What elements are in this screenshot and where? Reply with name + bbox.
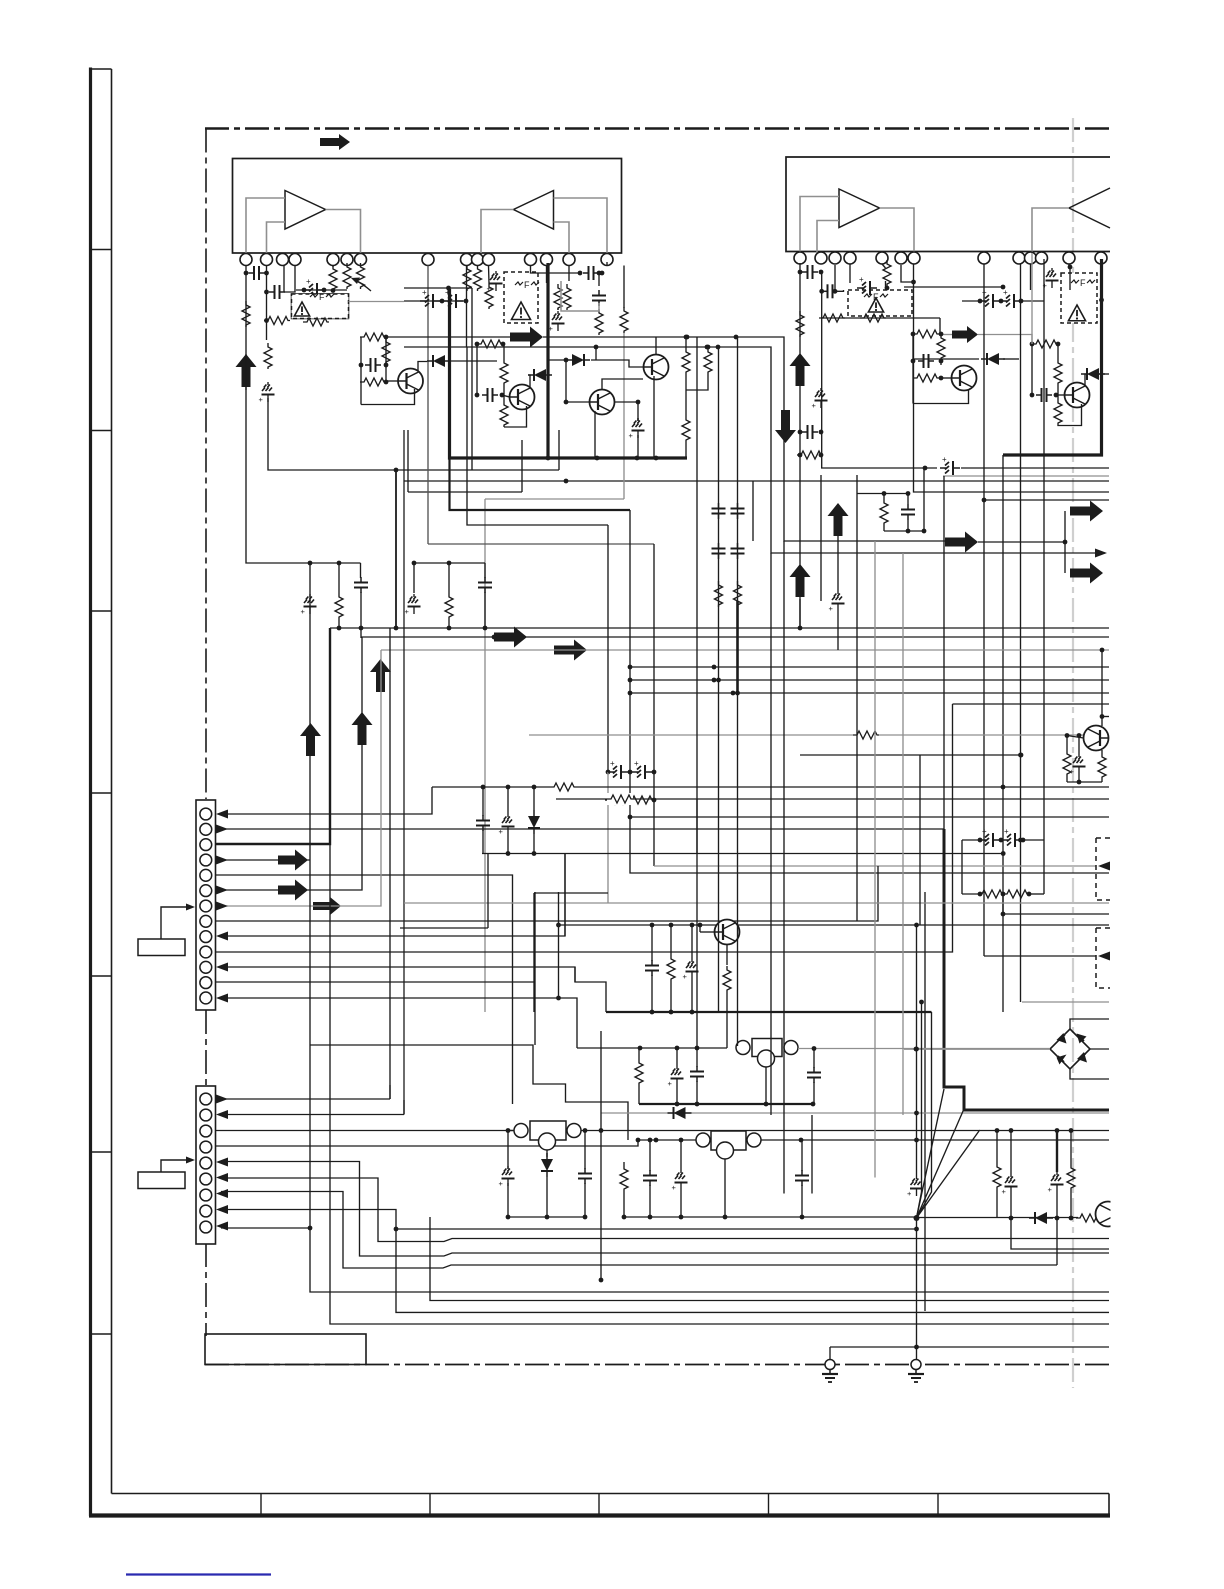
wire vert x962: [961, 840, 963, 894]
resistor R51: [682, 416, 690, 442]
wire row787 bottoms2: [507, 834, 509, 854]
wire h301: [962, 300, 980, 302]
resistor R3: [264, 317, 290, 325]
wire pair772 leads: [608, 771, 610, 773]
Q4 collector: [1100, 648, 1105, 726]
wire vr2 wiper: [724, 1159, 726, 1217]
resistor R49: [682, 348, 690, 374]
signal flow arrow A15: [370, 659, 391, 692]
svg-text:+: +: [610, 759, 615, 768]
Q7 emitter loop: [504, 406, 527, 427]
polarized capacitor C4: [302, 277, 327, 297]
wire cap to dashed box: [284, 266, 295, 293]
potentiometer VR1: [736, 1039, 798, 1068]
op-amp U1A triangle: [285, 191, 326, 230]
Q3 base stub: [1056, 394, 1065, 396]
wire rb d3: [1056, 1131, 1058, 1173]
capacitor C5: [359, 358, 389, 372]
wire row787 drops2: [507, 787, 509, 814]
signal flow arrow A16: [278, 850, 308, 871]
signal flow arrow A7: [790, 564, 811, 597]
Q7 base: [502, 395, 510, 397]
resistor R35 inline: [550, 781, 576, 793]
CN2 label leader: [161, 1157, 195, 1173]
wire vert x838b: [837, 611, 839, 650]
wire pair301 row: [404, 299, 468, 304]
resistor R46: [475, 340, 506, 348]
wire pin835 drop: [834, 265, 836, 291]
wire vert x800 low: [799, 599, 801, 628]
CN2 pin2 arrow: [216, 1110, 228, 1119]
wire IC2 pin1 feed: [799, 263, 801, 628]
CN1 pin5 wire: [216, 875, 513, 1104]
signal flow arrow A18: [313, 897, 341, 915]
resistor R27: [445, 593, 453, 619]
thick rail IC1 pin12: [546, 263, 549, 458]
wire vr2 d3: [679, 1138, 684, 1170]
signal flow arrow A2: [236, 354, 257, 387]
wire row1104: [639, 1102, 815, 1107]
svg-text:+: +: [629, 431, 634, 440]
svg-text:+: +: [1004, 827, 1009, 836]
capacitor C23: [478, 577, 492, 593]
wire ic2 cell2: [849, 264, 851, 283]
op-amp U2A triangle: [839, 189, 880, 228]
svg-text:+: +: [982, 827, 987, 836]
VR3 right lead2: [599, 1128, 980, 1133]
resistor R21: [937, 334, 945, 360]
chassis boundary dash-dot bottom: [205, 1364, 1110, 1366]
Q7 cell v3: [503, 385, 505, 401]
wire vr2 b1: [623, 1191, 625, 1217]
wire vert x924: [923, 468, 925, 531]
capacitor C8: [592, 290, 606, 306]
Q7 cell v2: [503, 344, 505, 359]
wire vert x838: [837, 536, 839, 591]
resistor R15: [796, 311, 804, 337]
CN2 pin1 wire: [221, 1098, 390, 1100]
wire vert 1057 low: [1056, 1218, 1058, 1266]
svg-text:+: +: [405, 607, 410, 616]
wire row1130r: [979, 1128, 1109, 1133]
diode D5: [668, 1107, 692, 1119]
wire rb d2: [1010, 1131, 1012, 1175]
resistor R13: [595, 309, 603, 335]
wire rc2 v2: [448, 563, 450, 593]
wire vr2 d1: [623, 1162, 625, 1165]
border frame bottom tick marks: [261, 1494, 1109, 1515]
electrolytic C20: [301, 594, 317, 616]
wire thick right v: [944, 829, 1109, 1110]
wire u1b cell5: [597, 271, 602, 286]
C51 v: [637, 418, 639, 421]
CN1 pin2 wire: [221, 828, 944, 830]
wire q3 cell: [1031, 344, 1033, 395]
electrolytic C51: [629, 418, 645, 440]
CN1 pin8 wire: [216, 866, 879, 921]
U1B input wire 2: [554, 222, 570, 253]
wire vert x631: [628, 510, 1109, 873]
U1A output wire: [326, 210, 361, 254]
diode D2: [981, 353, 1005, 365]
transistor Q9: [590, 390, 615, 415]
wire row1012: [606, 1010, 932, 1015]
connector CN2 pin circles: [200, 1093, 212, 1233]
U2A input wire: [800, 197, 839, 254]
resistor R7: [357, 263, 365, 289]
wire rc4 b1: [883, 525, 885, 531]
wire rc4 t1: [883, 494, 885, 500]
wire fan top: [914, 923, 919, 1176]
wire rb d4: [1070, 1131, 1072, 1165]
diode D3: [1081, 368, 1105, 380]
polarized capacitor C30: [978, 827, 1004, 847]
wire grey box link: [349, 301, 405, 303]
resistor R6: [343, 263, 351, 289]
wire IC2 pin2 drop: [821, 271, 823, 468]
Q1 emitter: [361, 389, 415, 405]
VR2 right lead: [761, 1138, 1109, 1143]
svg-text:+: +: [859, 275, 864, 284]
Q4 emitter stub: [1101, 750, 1103, 753]
flexible board F1 dashed box: [292, 294, 349, 319]
C51 bottom: [637, 435, 639, 458]
wire bus y563 caps top: [309, 563, 311, 860]
wire row1115 grey: [601, 1112, 1109, 1114]
wire vert x330 low: [330, 844, 1109, 1324]
CN1 pin10 wire: [216, 704, 953, 952]
warning mark W4: [1068, 305, 1085, 321]
resistor R44 pair a: [605, 796, 631, 804]
IC1 pin circles: [240, 254, 613, 266]
capacitor C54: [901, 504, 915, 520]
CN1 pin3 wire: [216, 628, 331, 844]
svg-text:+: +: [634, 759, 639, 768]
wire vr2 d2: [648, 1138, 653, 1171]
R50 bottom: [686, 374, 708, 390]
wire vr2 b3: [680, 1190, 682, 1217]
transistor Q1: [398, 369, 423, 394]
transistor Q7: [510, 385, 535, 410]
wire bot c34: [651, 975, 653, 1012]
wire grey 1002: [1022, 1001, 1109, 1003]
arrow into box1: [1098, 862, 1110, 871]
bridge bottom lead: [1070, 1069, 1109, 1079]
wire vert x771: [770, 553, 772, 1115]
signal flow arrow A4: [790, 353, 811, 386]
signal flow arrow A8: [945, 532, 978, 553]
Q9 collector: [602, 379, 643, 390]
capacitor C32: [476, 815, 490, 831]
wire row704: [953, 703, 1110, 705]
wire u1b cell: [531, 266, 581, 274]
resistor R17: [819, 314, 845, 322]
resistor R43 inline: [1076, 1212, 1102, 1224]
wire q4 v1: [1066, 776, 1068, 782]
CN2 pin9 arrow: [216, 1222, 228, 1231]
arrow end row553: [1095, 549, 1107, 558]
wire rc2 v4: [448, 619, 450, 628]
electrolytic C28: [829, 591, 845, 613]
wire rc4 t2: [907, 494, 909, 505]
capacitor C41: [643, 1170, 657, 1186]
wire q3 coll: [1085, 374, 1103, 386]
wire vert x608: [606, 525, 611, 774]
grey loop U1B: [561, 281, 599, 311]
polarized capacitor C48: [608, 759, 628, 779]
wire q3 cell4: [1058, 404, 1082, 426]
svg-text:F: F: [319, 292, 325, 302]
wire row799: [556, 797, 1109, 802]
polarized capacitor C52: [420, 288, 440, 308]
wire vr3 c40: [583, 1128, 588, 1169]
border frame bottom thick rule: [89, 1513, 1110, 1517]
wire drop c35: [691, 925, 693, 959]
wire t1 cell: [360, 337, 362, 405]
capacitor C38: [690, 1066, 704, 1082]
Q4 collector stub row: [1102, 716, 1109, 718]
svg-text:+: +: [499, 1179, 504, 1188]
capacitor C13: [798, 425, 824, 439]
potentiometer VR2: [696, 1131, 761, 1159]
signal flow arrow A17: [278, 880, 308, 901]
capacitor C36: [807, 1067, 821, 1083]
CN2 pin5 arrow: [216, 1158, 228, 1167]
Q5 emitter: [726, 945, 728, 966]
wire stair1: [389, 1085, 391, 1099]
border frame bottom inner rule: [112, 1493, 1110, 1495]
signal flow arrow A19: [952, 326, 978, 343]
wire grey row476: [943, 475, 1109, 477]
Q7 cell v1: [476, 344, 478, 395]
svg-text:+: +: [422, 288, 427, 297]
wire row1046: [310, 1045, 628, 1140]
CN1 pin9 arrow: [216, 932, 228, 941]
CN1 pin1 wire: [221, 787, 432, 814]
signal flow arrow A3: [510, 327, 543, 348]
wire vr2 b2: [649, 1185, 651, 1217]
wire bus row481: [404, 479, 1109, 484]
signal flow arrow A13: [300, 723, 321, 756]
IC2 pin circles: [794, 252, 1107, 264]
CN1 pin2 arrow: [216, 825, 228, 834]
Q4 cell: [1066, 736, 1068, 751]
wire grey row499: [485, 498, 624, 500]
wire bus y650 grey: [381, 649, 1109, 651]
wire pin2 lower row470: [268, 398, 559, 472]
electrolytic C12: [812, 388, 828, 410]
electrolytic C9: [549, 311, 565, 333]
wire vert x875: [874, 541, 876, 1178]
dashed box F4: [1061, 273, 1097, 323]
U2A input wire 2: [817, 221, 839, 254]
electrolytic C2: [259, 382, 275, 404]
bridge top lead: [1070, 1019, 1109, 1029]
wire vr3 l: [506, 1128, 514, 1133]
wire rc3 v2: [676, 1048, 678, 1066]
wire row290: [296, 288, 347, 293]
resistor R26: [335, 593, 343, 619]
svg-text:+: +: [829, 604, 834, 613]
wire ic2r vert2: [1018, 264, 1023, 1002]
CN2 pin8 wire: [221, 1210, 1109, 1313]
op-amp U1B triangle: [514, 191, 554, 230]
capacitor C43: [795, 1170, 809, 1186]
wire q3 cell2: [1057, 344, 1059, 359]
variable arrow: [351, 278, 371, 292]
warning mark W2: [512, 302, 531, 320]
svg-text:+: +: [1002, 1187, 1007, 1196]
wire vr3 lv: [507, 1131, 509, 1170]
wire row787 bottoms: [482, 830, 484, 854]
Q2 emitter: [913, 389, 969, 404]
signal flow arrow A9: [1070, 501, 1103, 522]
wire bot r38: [670, 981, 672, 1012]
wire vert x737: [737, 337, 739, 1046]
Q8 emitter: [653, 376, 655, 458]
wire IC1 pin1 lower feed: [246, 354, 361, 565]
wire vr2 d4: [801, 1140, 803, 1171]
wire vert x535: [534, 892, 536, 1045]
wire rb d1: [996, 1131, 998, 1164]
electrolytic C35: [683, 959, 699, 981]
svg-text:+: +: [907, 1189, 912, 1198]
wire stair2: [403, 1100, 405, 1115]
CN1 pin7 wire: [219, 650, 381, 906]
diode D4: [528, 810, 540, 834]
wire row756: [800, 753, 1023, 758]
resistor R14: [620, 307, 628, 333]
capacitor C19: [1030, 388, 1059, 402]
wire d2 right: [1003, 358, 1019, 360]
CN1 pin4 arrow: [216, 856, 228, 865]
U1B output wire: [481, 210, 514, 254]
R49 bottom: [685, 374, 687, 416]
dashed box F2: [504, 272, 538, 323]
signal flow arrow A12: [554, 640, 587, 661]
chassis ground G2: [908, 1360, 924, 1383]
R51 bottom: [685, 442, 687, 458]
electrolytic C15: [1043, 268, 1059, 290]
wire vr2 b4: [801, 1185, 803, 1217]
wire vert x812: [811, 1115, 813, 1194]
wire vert x822 low: [820, 475, 822, 601]
wire ic2r vert4: [1043, 259, 1045, 395]
wire vert x488: [487, 854, 489, 928]
svg-text:+: +: [942, 455, 947, 464]
resistor R47: [500, 359, 508, 385]
resistor R18: [860, 314, 886, 322]
CN1 pin13 arrow: [216, 994, 228, 1003]
capacitor C10: [798, 265, 824, 279]
wire pair800 lead r: [652, 799, 654, 801]
resistor R20: [911, 330, 944, 338]
resistor R30 inline: [853, 729, 879, 741]
capacitor C1: [244, 266, 269, 280]
electrolytic C14: [857, 275, 889, 295]
CN2 pin7 arrow: [216, 1189, 228, 1198]
wire ic2 cell4: [882, 264, 886, 268]
wire row468 right: [961, 467, 1109, 469]
wire vert x601: [599, 1031, 604, 1282]
wire row1249: [1011, 1218, 1109, 1250]
wire rb b4: [1070, 1190, 1072, 1218]
wire vert x624 up: [623, 333, 625, 499]
chassis boundary dash-dot left mid: [205, 1010, 207, 1087]
resistor R1: [242, 301, 250, 327]
CN2 pin3 wire: [216, 1130, 514, 1132]
wire vert x784: [783, 541, 785, 1194]
wire u1b cell3: [606, 262, 608, 266]
blue reference underline: [126, 1573, 271, 1575]
wire rc2 v5: [484, 592, 486, 628]
wire ic2r vert3: [1030, 264, 1032, 290]
bridge right lead: [1090, 1048, 1109, 1050]
border frame left inner rule: [111, 69, 113, 1494]
CN2 pin7 wire: [221, 1192, 1057, 1269]
resistor R31: [1063, 750, 1071, 776]
VR1 wiper drop: [765, 1067, 767, 1104]
wire c21 v2: [360, 592, 362, 638]
wire c17 link: [1021, 300, 1044, 302]
wire right cluster2: [412, 561, 485, 566]
resistor R53: [474, 265, 482, 291]
capacitor C24: [711, 503, 726, 519]
wire pin U2A out drop: [914, 264, 1110, 492]
U1A input wire 2: [267, 222, 286, 253]
transistor Q8: [644, 355, 669, 380]
Q9 vert: [565, 360, 567, 402]
wire thick x737 segment: [735, 601, 740, 695]
wire vert x559: [556, 892, 561, 1000]
wire vr3 wiper: [546, 1150, 548, 1157]
wire u1b cell6: [623, 266, 625, 309]
Q4 cell2: [1078, 736, 1080, 755]
svg-text:+: +: [301, 607, 306, 616]
wire mid h347: [404, 345, 1105, 553]
wire grey vert x485: [484, 499, 486, 1012]
wire row1048b: [577, 1046, 727, 1051]
bridge left lead grey: [904, 1047, 1050, 1052]
D9 left: [548, 358, 568, 363]
D9 right: [591, 360, 643, 367]
C11 right corner: [838, 290, 844, 291]
CN1 pin9 wire: [221, 854, 565, 936]
capacitor C34: [645, 960, 659, 976]
capacitor C50: [475, 388, 505, 402]
Q5 base: [700, 931, 715, 933]
resistor R50: [704, 348, 712, 374]
wire row500: [982, 498, 1109, 503]
R49 top: [684, 335, 689, 348]
Q7 collector: [528, 375, 530, 388]
Q9 emitter: [594, 411, 596, 458]
wire IC1 pin1 feed: [245, 266, 247, 391]
wire vr3 b3: [584, 1183, 586, 1217]
wire row928: [400, 927, 488, 929]
R19 bottom link: [885, 281, 887, 288]
wire pair row894l: [962, 893, 980, 895]
power amplifier IC2 outline: [786, 157, 1110, 252]
electrolytic C45: [1048, 1172, 1064, 1194]
wire vert x697: [696, 337, 698, 1048]
wire d3 row: [1103, 373, 1109, 375]
chassis boundary dash-dot top: [205, 127, 1110, 129]
wire rc4 bottom: [884, 529, 926, 534]
wire t1 cell2: [385, 337, 387, 382]
wire vert x1044: [1043, 395, 1045, 894]
CN2 pin4 wire: [216, 1140, 639, 1146]
